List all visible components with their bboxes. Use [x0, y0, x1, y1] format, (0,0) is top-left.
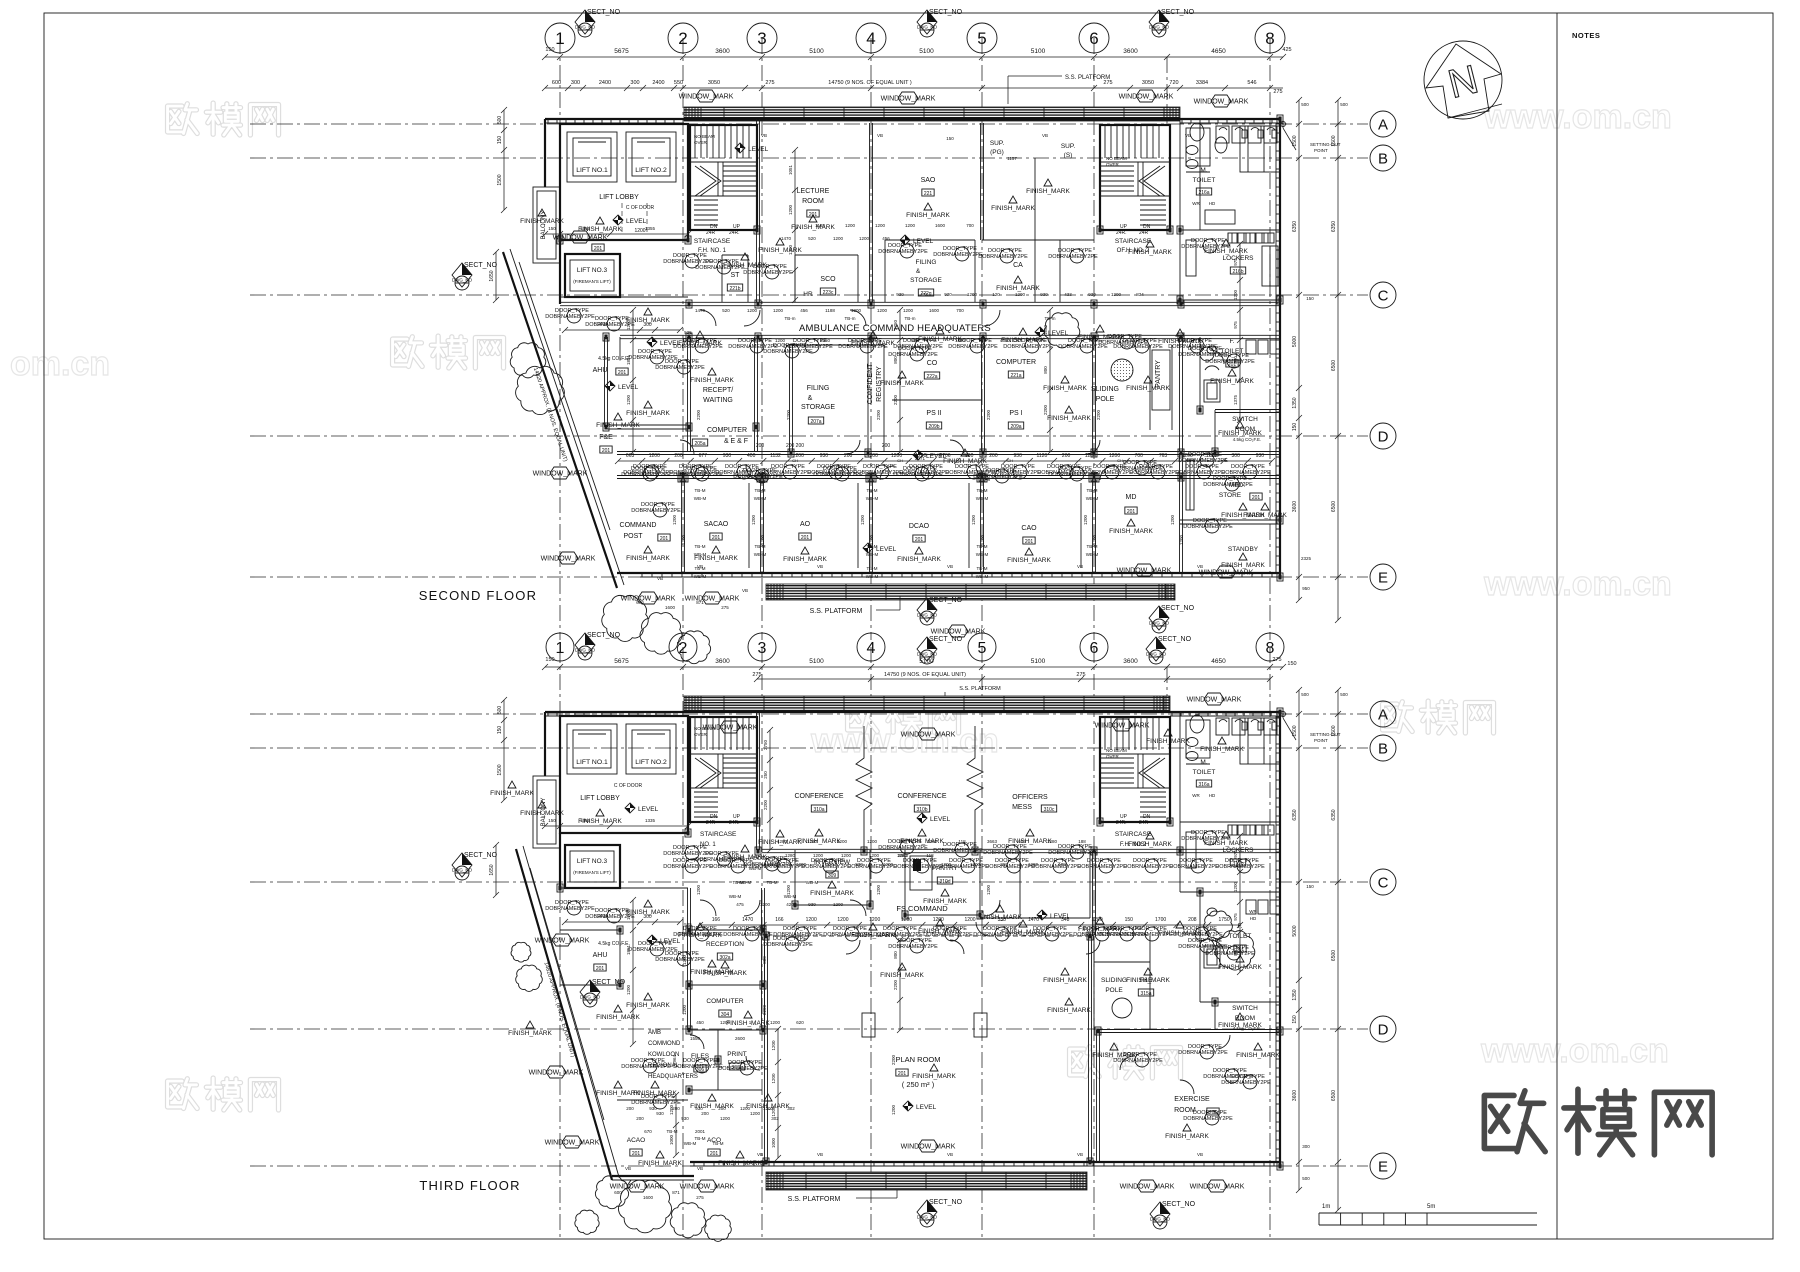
S.S. platform band bottom f3 (hatched) [766, 1172, 1087, 1190]
door smudges [663, 253, 713, 268]
svg-text:FINISH_MARK: FINISH_MARK [1026, 188, 1070, 195]
level marker [913, 450, 947, 460]
svg-text:S.S. PLATFORM: S.S. PLATFORM [1065, 75, 1110, 81]
svg-text:(FIREMAN'S LIFT): (FIREMAN'S LIFT) [573, 870, 611, 875]
svg-text:DOBRNAMEBY2PE: DOBRNAMEBY2PE [763, 942, 813, 948]
svg-text:SACAO: SACAO [704, 521, 729, 528]
svg-text:8: 8 [1266, 640, 1275, 657]
watermark 欧模网 top-left [168, 103, 279, 135]
svg-text:5100: 5100 [809, 658, 824, 665]
top rooms partitions [756, 119, 758, 302]
svg-text:930: 930 [649, 1106, 657, 1111]
svg-text:2: 2 [679, 640, 688, 657]
svg-text:FINISH_MARK: FINISH_MARK [690, 377, 734, 384]
svg-text:FINISH_MARK: FINISH_MARK [1043, 977, 1087, 984]
svg-text:B: B [1378, 150, 1388, 167]
section flag SECT_NO [580, 979, 626, 1007]
svg-text:1500: 1500 [497, 174, 503, 185]
svg-text:WINDOW_MARK: WINDOW_MARK [1194, 99, 1249, 106]
svg-text:201: 201 [898, 1071, 907, 1077]
svg-text:DOBRNAMEBY2PE: DOBRNAMEBY2PE [873, 932, 923, 938]
svg-text:WB-M: WB-M [866, 496, 879, 501]
section flag SECT_NO [1149, 605, 1195, 633]
svg-text:1200: 1200 [672, 514, 677, 525]
svg-text:FINISH_MARK: FINISH_MARK [912, 1073, 956, 1080]
svg-text:201: 201 [712, 535, 721, 541]
svg-text:FINISH_MARK: FINISH_MARK [633, 1090, 677, 1097]
svg-text:TB-M: TB-M [713, 1141, 724, 1146]
svg-text:1200: 1200 [770, 1020, 781, 1025]
svg-text:1200: 1200 [905, 223, 916, 228]
svg-text:5: 5 [978, 640, 987, 657]
svg-text:1200: 1200 [1015, 292, 1026, 297]
svg-text:CH: CH [1117, 458, 1123, 463]
lift no.2 f3 [626, 724, 676, 774]
partitions right of pantry [1019, 851, 1021, 918]
wall junction blocks f2 [686, 300, 692, 308]
svg-text:WINDOW_MARK: WINDOW_MARK [1120, 1184, 1175, 1191]
level marker [917, 813, 951, 823]
tree [670, 1203, 706, 1238]
section flag SECT_NO [917, 9, 963, 37]
svg-text:FINISH_MARK: FINISH_MARK [991, 205, 1035, 212]
window mullion combs f2 [547, 119, 549, 123]
svg-text:1280: 1280 [1028, 862, 1039, 867]
svg-text:PANTRY: PANTRY [1155, 360, 1162, 388]
svg-text:2750: 2750 [763, 739, 768, 750]
svg-text:620: 620 [796, 1020, 804, 1025]
svg-text:1200: 1200 [877, 308, 888, 313]
svg-text:WR: WR [1192, 201, 1200, 206]
level marker [605, 381, 639, 391]
zigzag partition 1 [856, 726, 872, 850]
svg-text:DOBRNAMEBY2PE: DOBRNAMEBY2PE [1123, 932, 1173, 938]
tree [516, 965, 543, 991]
svg-text:WB-M: WB-M [866, 574, 879, 579]
svg-text:200 200: 200 200 [786, 443, 804, 449]
svg-text:DOBRNAMEBY2PE: DOBRNAMEBY2PE [631, 508, 681, 514]
svg-text:DOBRNAMEBY2PE: DOBRNAMEBY2PE [709, 864, 759, 870]
svg-text:200: 200 [701, 1111, 709, 1116]
svg-text:TB-M: TB-M [977, 566, 988, 571]
section flag SECT_NO [1146, 636, 1192, 664]
svg-text:WINDOW_MARK: WINDOW_MARK [685, 596, 740, 603]
svg-text:200: 200 [989, 453, 998, 459]
svg-text:800: 800 [1043, 366, 1048, 374]
svg-text:FINISH_MARK: FINISH_MARK [1047, 1007, 1091, 1014]
section flag SECT_NO [1149, 9, 1195, 37]
svg-text:TB-M: TB-M [695, 544, 706, 549]
svg-text:D: D [1378, 1021, 1389, 1038]
section flag SECT_NO [452, 852, 498, 880]
svg-text:SECT_NO: SECT_NO [929, 1199, 963, 1206]
svg-text:2200: 2200 [1043, 404, 1048, 415]
grid line A f3 [250, 713, 1368, 715]
svg-text:5m: 5m [1427, 1204, 1435, 1210]
tree [516, 366, 565, 414]
svg-text:FS COMMAND: FS COMMAND [896, 904, 948, 913]
svg-text:DOBRNAMEBY2PE: DOBRNAMEBY2PE [545, 314, 595, 320]
lockers room [1180, 229, 1280, 231]
svg-text:1650: 1650 [489, 864, 495, 875]
svg-text:1200: 1200 [750, 1111, 761, 1116]
svg-text:DOBRNAMEBY2PE: DOBRNAMEBY2PE [933, 252, 983, 258]
svg-text:(S): (S) [1064, 152, 1073, 159]
svg-text:COMPUTER: COMPUTER [707, 427, 747, 434]
svg-text:2: 2 [678, 29, 687, 48]
svg-text:STORAGE: STORAGE [801, 404, 835, 411]
right side dimension columns f3 [1298, 690, 1300, 1190]
svg-text:1600: 1600 [643, 1195, 654, 1200]
svg-text:E: E [1378, 1158, 1388, 1175]
svg-text:www.om.cn: www.om.cn [1480, 1032, 1669, 1070]
svg-text:1200: 1200 [860, 514, 865, 525]
svg-text:1355: 1355 [645, 226, 656, 231]
svg-text:LIFT NO.2: LIFT NO.2 [635, 759, 667, 766]
svg-text:SWITCH: SWITCH [1232, 416, 1258, 423]
svg-text:1200: 1200 [1170, 514, 1175, 525]
svg-text:C OF DOOR: C OF DOOR [614, 783, 643, 789]
svg-text:209b: 209b [928, 424, 939, 430]
svg-text:360: 360 [1000, 862, 1008, 867]
bottom-left wall step f3 [612, 1175, 694, 1177]
svg-text:F&E: F&E [599, 434, 613, 441]
svg-text:300: 300 [630, 80, 639, 86]
svg-text:420: 420 [826, 862, 834, 867]
svg-text:WB-M: WB-M [976, 552, 989, 557]
svg-text:2400: 2400 [652, 80, 664, 86]
svg-text:DOBRNAMEBY2PE: DOBRNAMEBY2PE [1205, 951, 1255, 957]
svg-text:FINISH_MARK: FINISH_MARK [1204, 840, 1248, 847]
svg-text:1200: 1200 [876, 884, 881, 895]
svg-text:930: 930 [1088, 292, 1096, 297]
svg-text:WB-M: WB-M [694, 552, 707, 557]
svg-text:DOBRNAMEBY2PE: DOBRNAMEBY2PE [715, 470, 765, 476]
svg-text:SETTING-OUT: SETTING-OUT [1310, 732, 1341, 737]
svg-text:LIFT NO.3: LIFT NO.3 [577, 858, 608, 865]
svg-text:120: 120 [992, 292, 1000, 297]
svg-text:520: 520 [808, 236, 816, 241]
svg-text:WAITING: WAITING [703, 397, 733, 404]
grid bubble 6 [1080, 633, 1108, 661]
grid bubble C [1370, 869, 1396, 895]
grid bubble E [1370, 564, 1396, 590]
svg-text:275: 275 [696, 1195, 704, 1200]
svg-text:201: 201 [618, 370, 627, 376]
lift block f3 [560, 716, 688, 833]
svg-text:1200: 1200 [771, 1073, 776, 1084]
svg-text:CA: CA [1013, 262, 1023, 269]
svg-text:TB-M: TB-M [977, 488, 988, 493]
svg-text:DWG_NO: DWG_NO [580, 995, 601, 1000]
grid bubble 6 [1079, 23, 1109, 53]
svg-text:POLE: POLE [1096, 396, 1115, 403]
tree [705, 1215, 732, 1241]
svg-text:930: 930 [695, 1106, 703, 1111]
svg-text:FINISH_MARK: FINISH_MARK [906, 212, 950, 219]
svg-text:DOBRNAMEBY2PE: DOBRNAMEBY2PE [923, 932, 973, 938]
svg-text:TB-M: TB-M [733, 880, 744, 885]
svg-text:5100: 5100 [809, 48, 824, 55]
svg-text:1200: 1200 [771, 1040, 776, 1051]
tree [1204, 911, 1233, 939]
svg-text:2600: 2600 [735, 1036, 746, 1041]
main exterior walls f3 [545, 711, 1280, 713]
svg-text:AO: AO [800, 521, 811, 528]
svg-text:3600: 3600 [715, 658, 730, 665]
svg-text:POLE: POLE [1105, 987, 1123, 994]
grid bubble 4 [857, 633, 885, 661]
svg-text:STAIRCASE: STAIRCASE [1115, 238, 1152, 245]
toilet fixtures M toilet f2 [1216, 126, 1229, 143]
svg-text:1200: 1200 [986, 884, 991, 895]
svg-text:FINISH_MARK: FINISH_MARK [1109, 528, 1153, 535]
svg-text:1200: 1200 [833, 236, 844, 241]
svg-text:1200: 1200 [891, 1104, 896, 1115]
wall below lift lobby [560, 239, 688, 241]
tree [511, 942, 531, 962]
grid bubble 8 [1256, 633, 1284, 661]
svg-text:302: 302 [787, 1106, 795, 1111]
svg-text:300: 300 [1232, 453, 1241, 459]
svg-text:930: 930 [723, 453, 732, 459]
svg-text:EXERCISE: EXERCISE [1174, 1096, 1210, 1103]
svg-text:VB: VB [1197, 564, 1203, 569]
svg-text:3600: 3600 [1123, 658, 1138, 665]
svg-text:WINDOW_MARK: WINDOW_MARK [533, 471, 588, 478]
svg-text:300: 300 [571, 80, 580, 86]
watermark 欧模网 bottom-left [168, 1078, 279, 1110]
svg-text:DOBRNAMEBY2PE: DOBRNAMEBY2PE [1031, 864, 1081, 870]
svg-text:663: 663 [626, 453, 635, 459]
left diagonal wall f3 [516, 849, 612, 1180]
svg-text:THIRD FLOOR: THIRD FLOOR [419, 1178, 520, 1193]
svg-text:1200: 1200 [806, 917, 817, 923]
svg-text:DOBRNAMEBY2PE: DOBRNAMEBY2PE [983, 850, 1033, 856]
svg-text:24R: 24R [706, 820, 716, 826]
svg-text:CO: CO [927, 360, 938, 367]
svg-text:TB-M: TB-M [695, 488, 706, 493]
S.S. platform band top f3 (hatched) [684, 696, 1170, 712]
svg-text:DOBRNAMEBY2PE: DOBRNAMEBY2PE [1077, 864, 1127, 870]
svg-text:FINISH_MARK: FINISH_MARK [1218, 1022, 1262, 1029]
svg-text:1500: 1500 [497, 764, 503, 775]
svg-text:SAO: SAO [921, 177, 936, 184]
svg-text:WB-M: WB-M [806, 880, 819, 885]
svg-text:24R: 24R [1139, 820, 1149, 826]
svg-text:WB-M: WB-M [976, 496, 989, 501]
svg-text:1200: 1200 [833, 902, 844, 907]
svg-text:VB: VB [817, 1152, 823, 1157]
svg-text:FINISH_MARK: FINISH_MARK [1165, 1133, 1209, 1140]
svg-text:LIFT NO.1: LIFT NO.1 [576, 167, 608, 174]
svg-text:LEVEL: LEVEL [876, 546, 897, 553]
svg-text:1200: 1200 [807, 839, 818, 844]
svg-text:WR: WR [1192, 793, 1200, 798]
svg-text:FINISH_MARK: FINISH_MARK [626, 410, 670, 417]
grid line C f3 [250, 881, 1368, 883]
svg-text:FINISH_MARK: FINISH_MARK [897, 556, 941, 563]
interior door arcs [700, 310, 716, 326]
svg-text:CAO: CAO [1021, 525, 1037, 532]
svg-text:1200: 1200 [720, 1116, 731, 1121]
svg-text:RECEPTION: RECEPTION [706, 941, 744, 948]
svg-text:VB: VB [757, 1152, 763, 1157]
svg-text:SECT_NO: SECT_NO [587, 9, 621, 16]
svg-text:FINISH_MARK: FINISH_MARK [596, 1014, 640, 1021]
svg-text:DOBRNAMEBY2PE: DOBRNAMEBY2PE [673, 1064, 723, 1070]
svg-text:DOBRNAMEBY2PE: DOBRNAMEBY2PE [655, 365, 705, 371]
svg-text:STANDBY: STANDBY [1228, 546, 1259, 553]
svg-text:COMMAND: COMMAND [620, 522, 657, 529]
svg-text:550: 550 [674, 80, 683, 86]
svg-text:B: B [1378, 740, 1388, 757]
svg-text:DOBRNAMEBY2PE: DOBRNAMEBY2PE [823, 932, 873, 938]
svg-text:(PG): (PG) [990, 149, 1004, 156]
svg-text:200: 200 [756, 443, 765, 449]
svg-text:FINISH_MARK: FINISH_MARK [880, 380, 924, 387]
section flag SECT_NO [917, 1199, 963, 1227]
svg-text:1200: 1200 [681, 534, 686, 545]
svg-text:1200: 1200 [1092, 534, 1097, 545]
svg-text:FINISH_MARK: FINISH_MARK [1200, 746, 1244, 753]
svg-text:VB: VB [1077, 564, 1083, 569]
grid bubble 5 [968, 633, 996, 661]
svg-text:4.5kg CO₂F.E.: 4.5kg CO₂F.E. [1233, 437, 1262, 442]
svg-text:400: 400 [747, 453, 756, 459]
svg-text:OVER: OVER [694, 732, 708, 737]
secondary dimension row f3 [757, 678, 1270, 680]
svg-text:1200: 1200 [626, 984, 631, 995]
svg-text:1m: 1m [1322, 1204, 1330, 1210]
svg-text:STAIRCASE: STAIRCASE [694, 238, 731, 245]
scale bar [1319, 1212, 1537, 1214]
window marks top wall [679, 90, 734, 102]
svg-text:WB-M: WB-M [729, 894, 742, 899]
svg-text:975: 975 [1233, 321, 1238, 329]
svg-text:1200: 1200 [763, 1106, 774, 1111]
svg-text:PS I: PS I [1009, 410, 1022, 417]
svg-text:200: 200 [674, 453, 683, 459]
svg-text:275: 275 [1272, 657, 1281, 663]
svg-text:3600: 3600 [1123, 48, 1138, 55]
window marks left/bottom f3 [529, 1066, 584, 1078]
svg-text:OVER: OVER [1106, 754, 1120, 759]
svg-text:WB-M: WB-M [976, 574, 989, 579]
svg-text:201: 201 [594, 246, 603, 252]
lift no.3 [565, 254, 620, 297]
svg-text:1200: 1200 [941, 862, 952, 867]
svg-text:TOILET: TOILET [1193, 769, 1216, 776]
svg-text:DOBRNAMEBY2PE: DOBRNAMEBY2PE [761, 470, 811, 476]
bottom rooms partitions [681, 478, 683, 573]
svg-text:VB: VB [947, 1152, 953, 1157]
svg-text:14750 (9 NOS. OF EQUAL UN: 14750 (9 NOS. OF EQUAL UNIT ) [828, 80, 912, 86]
svg-text:1200: 1200 [682, 954, 687, 965]
plan room [764, 936, 766, 1162]
level marker [613, 215, 647, 225]
svg-text:FINISH_MARK: FINISH_MARK [578, 226, 622, 233]
svg-text:SUP.: SUP. [1061, 143, 1076, 150]
svg-text:DOBRNAMEBY2PE: DOBRNAMEBY2PE [1168, 344, 1218, 350]
svg-text:1280: 1280 [1047, 839, 1058, 844]
svg-text:WB-M: WB-M [684, 1141, 697, 1146]
svg-text:M.: M. [1200, 167, 1207, 174]
svg-text:200: 200 [636, 1116, 644, 1121]
svg-text:546: 546 [1247, 80, 1256, 86]
svg-text:150: 150 [545, 657, 554, 663]
svg-text:200: 200 [718, 1106, 726, 1111]
balcony [533, 187, 560, 263]
right exterior wall [1279, 119, 1281, 577]
locker grid f3 [1227, 825, 1229, 835]
svg-text:1120: 1120 [1037, 453, 1048, 459]
svg-text:500: 500 [497, 706, 503, 715]
svg-text:WINDOW_MARK: WINDOW_MARK [931, 629, 986, 636]
vertical grid lines f3 [559, 647, 561, 1240]
svg-text:DOBRNAMEBY2PE: DOBRNAMEBY2PE [1083, 470, 1133, 476]
section flag SECT_NO [575, 9, 621, 37]
svg-text:FILING: FILING [916, 259, 937, 266]
svg-text:S.S. PLATFORM: S.S. PLATFORM [810, 608, 863, 615]
svg-text:VB: VB [1185, 133, 1191, 138]
svg-text:DOBRNAMEBY2PE: DOBRNAMEBY2PE [1023, 932, 1073, 938]
grid bubble 1 [545, 23, 575, 53]
svg-text:3050: 3050 [1142, 80, 1154, 86]
svg-text:500: 500 [1302, 1176, 1310, 1181]
svg-text:420: 420 [786, 902, 794, 907]
svg-text:1: 1 [556, 640, 565, 657]
middle rooms walls [604, 337, 606, 427]
svg-text:FINISH_MARK: FINISH_MARK [1126, 977, 1170, 984]
svg-text:1200: 1200 [903, 308, 914, 313]
svg-text:VB: VB [1197, 1152, 1203, 1157]
tree [510, 343, 546, 378]
svg-text:1470: 1470 [742, 917, 753, 923]
svg-text:LEVEL: LEVEL [748, 146, 769, 153]
svg-text:150: 150 [1125, 917, 1134, 923]
svg-text:LEVEL: LEVEL [930, 816, 951, 823]
svg-text:SWITCH: SWITCH [1232, 1005, 1258, 1012]
svg-text:201: 201 [602, 448, 611, 454]
svg-text:OVER: OVER [694, 140, 708, 145]
svg-text:166: 166 [775, 917, 784, 923]
svg-text:3600: 3600 [1292, 501, 1298, 512]
svg-text:201: 201 [710, 1151, 719, 1157]
svg-text:433: 433 [920, 292, 928, 297]
svg-text:OVER: OVER [1106, 162, 1120, 167]
svg-text:1200: 1200 [1233, 881, 1238, 892]
svg-text:POINT: POINT [1314, 148, 1328, 153]
grid bubble 3 [748, 633, 776, 661]
svg-text:1280: 1280 [767, 862, 778, 867]
watermark 欧模网 left-mid [393, 336, 504, 368]
svg-text:WB-M: WB-M [1086, 496, 1099, 501]
svg-text:HR: HR [803, 291, 813, 298]
section flag SECT_NO [917, 597, 963, 625]
corridor south dashed f3 [765, 935, 1089, 937]
corridor dimension line [618, 460, 1272, 462]
svg-text:2400: 2400 [599, 80, 611, 86]
svg-text:700: 700 [956, 308, 964, 313]
svg-text:om.cn: om.cn [10, 345, 110, 383]
svg-text:6350: 6350 [1292, 221, 1298, 232]
bottom exterior wall f3 [690, 1161, 1280, 1163]
svg-text:VB: VB [1042, 133, 1048, 138]
svg-text:( 250 m² ): ( 250 m² ) [902, 1080, 935, 1089]
svg-text:DOBRNAMEBY2PE: DOBRNAMEBY2PE [948, 344, 998, 350]
svg-text:DOBRNAMEBY2PE: DOBRNAMEBY2PE [893, 344, 943, 350]
